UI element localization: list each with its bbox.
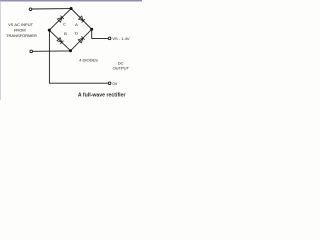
svg-text:B: B [64,31,67,36]
svg-text:OUTPUT: OUTPUT [113,66,130,71]
svg-text:D: D [75,31,78,36]
svg-text:A full-wave rectifier: A full-wave rectifier [78,93,126,99]
svg-text:C: C [63,22,66,27]
svg-text:VS - 1.4V: VS - 1.4V [112,36,129,41]
svg-text:TRANSFORMER: TRANSFORMER [6,33,37,38]
svg-text:A: A [75,22,78,27]
svg-text:0V: 0V [112,81,117,86]
svg-text:4 DIODES: 4 DIODES [79,57,98,62]
svg-text:FROM: FROM [14,27,26,32]
